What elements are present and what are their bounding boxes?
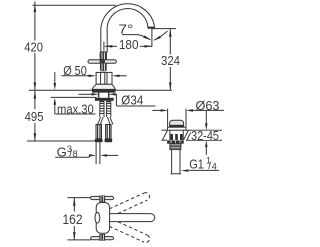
supply stud right [107,101,111,117]
pivot ellipse [95,212,100,223]
dim 420 line [34,2,36,41]
G1 1/4 leader [189,169,219,171]
324 top extension line [152,28,176,30]
svg-text:Ø 50: Ø 50 [63,64,87,78]
svg-text:G: G [57,145,67,160]
svg-text:162: 162 [63,211,83,227]
dim 180 [103,42,105,51]
dashed swivel arm lower [104,217,151,244]
waste threaded shank [170,144,181,150]
deck hatching [163,131,168,140]
svg-text:180: 180 [119,37,139,52]
cross handle bottom spoke [100,63,107,71]
svg-text:495: 495 [25,109,44,124]
locknut below deck [95,98,114,101]
wire: top extension line [33,4,117,6]
waste flange [168,127,187,130]
hose transition left [98,117,101,125]
supply stud left [100,101,104,117]
waste tube [171,150,173,174]
hose transition right [107,117,110,125]
waste locknut [167,140,184,143]
cross handle top spoke [100,51,107,59]
svg-text:420: 420 [24,40,43,55]
svg-text:8: 8 [73,149,78,159]
G3/8 leader and arrows [55,156,89,158]
plan top handle [91,196,114,199]
svg-text:Ø63: Ø63 [196,98,220,113]
dim O50 line [61,75,89,77]
162 extension lines [67,197,91,199]
svg-text:4: 4 [212,161,217,171]
valve cap cylinder [96,72,112,84]
dim 495 line [34,90,36,109]
svg-text:7°: 7° [118,22,133,37]
180 right extension line [151,28,153,47]
max.30 underline [55,113,96,115]
495 bottom reference line [27,140,103,142]
body capsule plan [96,203,109,234]
cross handle hub [100,59,106,65]
deck top line [29,89,172,91]
deck band around waste [161,129,167,131]
spout arc inner [107,9,148,53]
hose fitting right [106,125,112,139]
max.30 lower arrow [54,104,56,114]
shank through deck [98,93,100,98]
base cone [92,84,115,89]
dim O63 [152,109,161,111]
plan bottom handle [91,237,114,240]
svg-text:G1: G1 [189,157,204,172]
waste body through deck [169,130,171,140]
svg-text:max.30: max.30 [57,101,94,116]
spout arc outer [101,4,155,53]
dim 324 line [169,29,171,55]
dim 162 [73,198,75,212]
svg-text:/: / [208,160,211,172]
G3/8 tube [95,142,97,164]
svg-text:Ø34: Ø34 [121,93,143,108]
hose fitting left [96,125,102,139]
spout outlet mouth [147,27,155,29]
cross handle bar [88,60,116,64]
deck bottom line [51,96,97,98]
svg-text:324: 324 [161,53,180,68]
dim 32-45 [205,111,207,124]
max.30 upper arrow [54,72,56,84]
solid spout plan [101,214,155,222]
dim O34 [79,93,93,95]
svg-text:32-45: 32-45 [191,128,219,143]
waste dome cap [170,120,184,127]
dashed swivel arm upper [104,191,151,218]
7 deg annotation [122,35,150,40]
